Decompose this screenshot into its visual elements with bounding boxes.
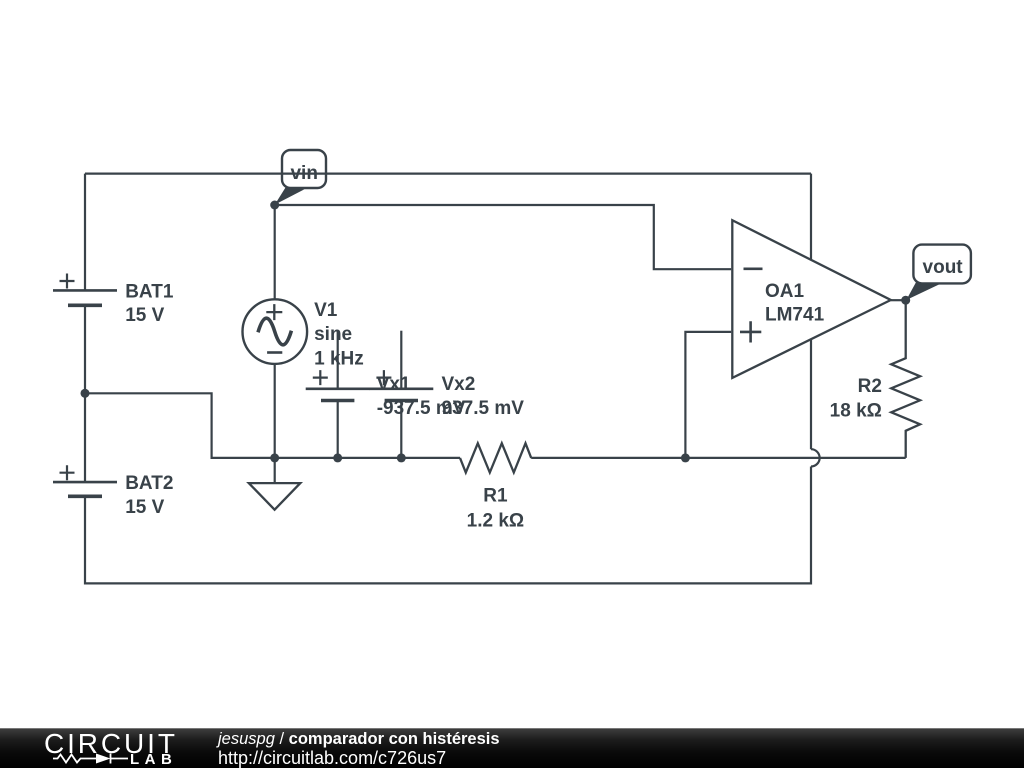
svg-text:V1: V1 <box>314 300 338 321</box>
svg-text:1 kHz: 1 kHz <box>314 348 364 369</box>
svg-text:R2: R2 <box>858 376 882 397</box>
resistor R2 <box>891 300 920 458</box>
svg-text:BAT2: BAT2 <box>125 473 173 494</box>
node dots <box>81 201 911 463</box>
svg-text:BAT1: BAT1 <box>125 281 174 302</box>
wire mid junction to ground rail <box>85 393 460 458</box>
svg-text:vout: vout <box>923 257 964 278</box>
footer bar <box>0 728 1024 768</box>
wire op-amp output stub <box>891 299 906 301</box>
wire left rail upper (to BAT1) <box>84 174 86 291</box>
wire rail right of R1 <box>531 457 906 459</box>
node Vx1 junction <box>333 453 342 462</box>
node Vx2 junction <box>397 453 406 462</box>
node vin flag <box>275 150 326 205</box>
svg-text:vin: vin <box>290 163 317 184</box>
resistor R1 <box>460 443 531 472</box>
svg-text:Vx1: Vx1 <box>377 374 411 395</box>
source V1 <box>242 299 307 364</box>
node vin junction <box>270 201 279 210</box>
ground <box>249 483 300 510</box>
svg-text:Vx2: Vx2 <box>442 374 476 395</box>
node ground junction <box>270 453 279 462</box>
wire vin to inverting input <box>275 205 732 269</box>
wire top rail <box>85 173 811 175</box>
svg-text:15 V: 15 V <box>125 305 164 326</box>
svg-text:sine: sine <box>314 324 352 345</box>
node battery mid junction <box>81 389 90 398</box>
svg-text:http://circuitlab.com/c726us7: http://circuitlab.com/c726us7 <box>218 748 446 768</box>
battery Vx2 <box>400 331 402 389</box>
node vout junction <box>901 296 910 305</box>
wire V1 bottom to rail <box>274 364 276 458</box>
battery Vx1 <box>337 331 339 389</box>
svg-text:LAB: LAB <box>130 751 177 768</box>
svg-text:937.5 mV: 937.5 mV <box>442 398 525 419</box>
svg-text:15 V: 15 V <box>125 497 164 518</box>
wire rail to ground symbol <box>274 458 276 483</box>
battery BAT1 <box>53 289 117 292</box>
wire BAT2 bottom / bottom rail <box>85 467 811 584</box>
wire hop over rail <box>811 449 820 466</box>
svg-text:18 kΩ: 18 kΩ <box>830 401 882 422</box>
svg-text:R1: R1 <box>483 486 508 507</box>
svg-text:LM741: LM741 <box>765 305 825 326</box>
op-amp OA1 <box>732 220 891 378</box>
wire right supply rail down to op-amp <box>810 174 812 450</box>
svg-text:OA1: OA1 <box>765 281 805 302</box>
svg-text:jesuspg / comparador con histé: jesuspg / comparador con histéresis <box>216 730 500 748</box>
labels <box>125 281 882 531</box>
wire non-inverting input to rail <box>685 332 731 458</box>
wire vin node down to V1 <box>274 205 276 299</box>
wire BAT1 bottom to mid junction <box>84 305 86 393</box>
node non-inverting junction <box>681 453 690 462</box>
svg-text:1.2 kΩ: 1.2 kΩ <box>467 510 525 531</box>
wire mid junction to BAT2 <box>84 393 86 482</box>
node vout flag <box>906 245 971 300</box>
logo resistor-diode squiggle <box>53 754 128 764</box>
battery BAT2 <box>53 481 117 484</box>
